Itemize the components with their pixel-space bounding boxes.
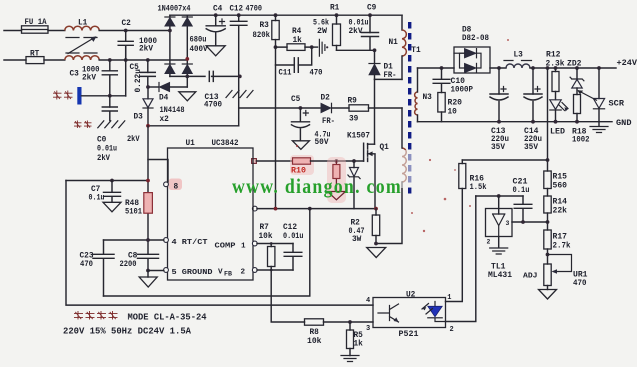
L1 adjust arrow bbox=[68, 36, 97, 53]
artifact specks bbox=[296, 39, 509, 232]
label R14 bbox=[553, 199, 568, 207]
transformer N1 primary winding bbox=[402, 30, 406, 56]
wire C2 below RT line bbox=[125, 60, 127, 96]
wire AC line N input bbox=[4, 59, 26, 61]
junction C2 bottom bbox=[124, 58, 128, 62]
label R16 value 1.5k bbox=[470, 184, 487, 192]
wire pin6 to R10 bbox=[256, 160, 292, 162]
svg-text:1000P: 1000P bbox=[451, 86, 474, 94]
wire blue bar to C0/C2 net bbox=[82, 95, 126, 97]
svg-text:0.22u: 0.22u bbox=[135, 69, 143, 93]
svg-text:T1: T1 bbox=[411, 47, 421, 55]
label ADJ bbox=[523, 273, 538, 281]
capacitor C12b bbox=[284, 244, 302, 271]
pink halo pin 8 bbox=[169, 179, 183, 191]
wire Vref horizontal bbox=[66, 180, 148, 182]
TL431 internal symbol bbox=[493, 196, 505, 237]
label R2 value 3W bbox=[352, 236, 362, 244]
junction gate zener bbox=[352, 159, 356, 163]
label K1507 bbox=[347, 133, 370, 141]
ground arrow C5b bbox=[292, 141, 309, 150]
label SCR bbox=[609, 101, 625, 109]
label jie-di (red CJK) bbox=[74, 121, 92, 129]
svg-text:C2: C2 bbox=[122, 20, 132, 28]
label R9 bbox=[348, 98, 358, 106]
svg-text:2kV: 2kV bbox=[127, 135, 140, 144]
junction CS drop bbox=[308, 207, 312, 211]
label opto pin 2 bbox=[450, 326, 454, 334]
label C10 value 1000P bbox=[451, 86, 474, 94]
junction C12 rail bbox=[237, 13, 241, 17]
label pin 5 GROUND bbox=[172, 269, 213, 277]
svg-text:22k: 22k bbox=[553, 207, 568, 215]
svg-text:C10: C10 bbox=[451, 78, 466, 86]
bridge right string bbox=[186, 15, 188, 76]
wire D3/R43 vertical bbox=[147, 126, 149, 255]
ground bars R5 bbox=[341, 356, 359, 362]
svg-text:2kV: 2kV bbox=[349, 27, 363, 36]
junction R2 top bbox=[374, 207, 378, 211]
junction VCC on CS wire bbox=[274, 207, 278, 211]
svg-text:680u: 680u bbox=[190, 36, 207, 45]
svg-text:R3: R3 bbox=[260, 22, 270, 30]
capacitor C14 220u bbox=[524, 68, 542, 122]
label C12b value 0.01u bbox=[283, 233, 304, 241]
svg-text:R12: R12 bbox=[546, 52, 561, 60]
label R10 (red) bbox=[291, 167, 306, 175]
U1 pin2 VFB circle bbox=[252, 268, 257, 273]
label R7 value 10k bbox=[259, 233, 273, 241]
label R3 value 820k bbox=[253, 31, 271, 40]
label R2 value 0.47 bbox=[349, 228, 365, 236]
junction R3 bottom bbox=[274, 45, 278, 49]
label C23 value 470 bbox=[80, 261, 93, 269]
svg-text:D82-08: D82-08 bbox=[462, 35, 489, 43]
wire pin5 net bbox=[148, 270, 164, 272]
wire drain vertical bbox=[374, 79, 376, 144]
capacitor C23 bbox=[93, 240, 114, 296]
label VFB 2 bbox=[218, 268, 246, 277]
wire CS net bbox=[257, 208, 376, 210]
label R9 value 39 bbox=[349, 116, 359, 124]
svg-text:0.01u: 0.01u bbox=[349, 18, 369, 27]
pink halo R10 bbox=[290, 155, 314, 175]
label T1 bbox=[411, 47, 421, 55]
ground arrow R2 bbox=[367, 248, 386, 258]
D8 internal top diode bbox=[454, 49, 477, 58]
wire pin4 net bbox=[104, 239, 164, 241]
wire R15-R14 bbox=[547, 189, 549, 197]
svg-text:UC3842: UC3842 bbox=[212, 140, 239, 148]
label opto pin 1 bbox=[447, 294, 451, 302]
svg-text:SCR: SCR bbox=[609, 101, 625, 109]
diode D bridge top-left bbox=[165, 17, 175, 26]
svg-text:R1: R1 bbox=[330, 5, 340, 13]
junction bridge right / N rail bbox=[185, 57, 189, 61]
D8 internal joins bbox=[460, 53, 482, 68]
label U1 bbox=[186, 140, 196, 148]
U1 pin 8 circle bbox=[164, 182, 169, 187]
svg-text:220u: 220u bbox=[524, 136, 542, 144]
label C21 bbox=[513, 179, 528, 187]
svg-text:0.1u: 0.1u bbox=[513, 187, 530, 195]
junction SCR rail bbox=[597, 66, 601, 70]
junction R18 gnd bbox=[575, 120, 579, 124]
svg-text:R5: R5 bbox=[354, 332, 364, 340]
wire N3 to D8 bbox=[418, 67, 455, 69]
svg-text:C13: C13 bbox=[491, 128, 506, 136]
label C10 bbox=[451, 78, 466, 86]
label 2kV (C5x) bbox=[127, 135, 140, 144]
junction C7 bbox=[110, 179, 114, 183]
svg-text:3W: 3W bbox=[352, 236, 362, 244]
wire snubber bottom bbox=[337, 49, 375, 51]
svg-text:C14: C14 bbox=[524, 128, 539, 136]
diode D bridge bottom-right bbox=[182, 64, 192, 74]
label C9 value 2kV bbox=[349, 27, 363, 36]
resistor R4 bbox=[276, 44, 312, 51]
resistor R43 (highlighted) bbox=[144, 193, 153, 214]
U1 pin 5 circle bbox=[164, 268, 169, 273]
label 220V 15% 50Hz DC24V 1.5A bbox=[63, 325, 191, 336]
label C4 value 680u bbox=[190, 36, 207, 45]
label TL431 pin3 bbox=[506, 220, 510, 227]
svg-text:470: 470 bbox=[573, 280, 587, 288]
junction UR1 top bbox=[546, 253, 550, 257]
junction C2 top bbox=[124, 29, 128, 33]
label C12 value 4700 bbox=[246, 6, 263, 14]
svg-text:0.01u: 0.01u bbox=[283, 233, 304, 241]
svg-text:2kV: 2kV bbox=[139, 45, 153, 54]
svg-text:D3: D3 bbox=[134, 114, 144, 122]
thyristor SCR bbox=[577, 68, 604, 122]
wire bridge to D4 net bbox=[186, 76, 188, 87]
svg-text:R17: R17 bbox=[553, 234, 568, 242]
svg-text:V: V bbox=[218, 268, 223, 276]
capacitor C13a 4700 series bbox=[209, 71, 213, 81]
svg-text:5.6k: 5.6k bbox=[313, 18, 329, 27]
label C5x bbox=[130, 64, 140, 72]
label R1 value 2W bbox=[317, 27, 327, 36]
wire to R16 bbox=[462, 159, 547, 161]
GND output rail bbox=[418, 121, 613, 123]
label ML431 bbox=[488, 272, 512, 280]
svg-text:400V: 400V bbox=[190, 45, 208, 54]
junction FB tap rail bbox=[546, 66, 550, 70]
label R15 value 560 bbox=[553, 182, 568, 190]
wire COMP net bbox=[257, 243, 293, 245]
svg-text:1k: 1k bbox=[354, 341, 364, 349]
label GND bbox=[616, 120, 632, 128]
svg-text:470: 470 bbox=[80, 261, 93, 269]
zener ZD1 gate bbox=[348, 161, 360, 209]
label D2 FR- bbox=[322, 118, 335, 126]
svg-text:C7: C7 bbox=[91, 186, 101, 194]
svg-text:U2: U2 bbox=[406, 292, 416, 300]
capacitor C4 680u bbox=[206, 15, 225, 46]
junction C14 top bbox=[531, 66, 535, 70]
label C13 bbox=[491, 128, 506, 136]
bridge left string bbox=[169, 15, 171, 76]
wire N line to bridge bbox=[99, 59, 187, 61]
svg-text:C9: C9 bbox=[367, 5, 377, 13]
junction R12 rail bbox=[554, 66, 558, 70]
wire C12 long vertical bbox=[238, 26, 240, 126]
label P521 bbox=[399, 331, 419, 339]
svg-text:ZD2: ZD2 bbox=[567, 60, 582, 68]
capacitor C21 bbox=[514, 196, 532, 222]
wiper link UR1 bbox=[548, 255, 572, 274]
svg-text:560: 560 bbox=[553, 182, 568, 190]
inductor L3 bbox=[506, 64, 530, 68]
svg-text:K1507: K1507 bbox=[347, 133, 370, 141]
label C3 value 1000 2kV bbox=[82, 66, 100, 83]
diode D1 FR- bbox=[369, 50, 380, 79]
label TL431 pin2 bbox=[487, 239, 491, 246]
svg-text:1N4148: 1N4148 bbox=[160, 107, 185, 115]
label R2 bbox=[351, 220, 361, 228]
svg-text:C23: C23 bbox=[80, 252, 94, 260]
label L1 bbox=[78, 20, 88, 28]
potentiometer UR1 bbox=[544, 264, 551, 286]
junction C9 rail bbox=[368, 13, 372, 17]
label C4 bbox=[213, 6, 223, 14]
junction ZD2 rail bbox=[575, 66, 579, 70]
junction C10 top bbox=[440, 66, 444, 70]
svg-text:2200: 2200 bbox=[120, 261, 137, 269]
opto LED (blue) bbox=[428, 302, 446, 322]
svg-text:FB: FB bbox=[224, 271, 232, 278]
label R8 value 10k bbox=[307, 338, 322, 346]
svg-text:UR1: UR1 bbox=[573, 272, 588, 280]
wire N2 top bbox=[401, 108, 403, 148]
label C0 bbox=[97, 137, 107, 145]
svg-text:R15: R15 bbox=[553, 174, 568, 182]
label R3 bbox=[260, 22, 270, 30]
wire R8 to opto pin3 bbox=[324, 321, 374, 323]
svg-text:4700: 4700 bbox=[204, 101, 222, 110]
junction Vref/R43 bbox=[146, 179, 150, 183]
junction C8 bottom bbox=[146, 269, 150, 273]
svg-text:C0: C0 bbox=[97, 137, 107, 145]
label R18 bbox=[572, 129, 587, 137]
label C11 value 470 bbox=[310, 69, 323, 78]
svg-text:ML431: ML431 bbox=[488, 272, 512, 280]
svg-text:2.7k: 2.7k bbox=[553, 242, 571, 250]
label R12 value 2.3k bbox=[546, 60, 565, 68]
label C13a value 4700 bbox=[204, 101, 222, 110]
label C4 plus bbox=[220, 19, 225, 24]
wire TL431 cathode net bbox=[476, 195, 523, 197]
wire R17-UR1 bbox=[547, 249, 549, 264]
wire VFB to R8 bbox=[271, 270, 304, 322]
transformer core dashes bbox=[408, 22, 411, 196]
label C5b bbox=[291, 96, 301, 104]
svg-text:Q1: Q1 bbox=[380, 144, 390, 152]
diode D bridge bottom-left bbox=[165, 64, 175, 74]
opto light arrows bbox=[422, 304, 433, 315]
label kai-liang (red CJK) bbox=[53, 91, 73, 100]
label opto pin 3 bbox=[366, 325, 370, 333]
svg-text:P521: P521 bbox=[399, 331, 419, 339]
junction C14 gnd bbox=[531, 120, 535, 124]
label C8 bbox=[128, 252, 138, 260]
capacitor C5 X-cap bbox=[140, 60, 155, 87]
svg-text:R7: R7 bbox=[260, 224, 270, 232]
label opto pin 4 bbox=[366, 297, 370, 305]
C13 plus bbox=[501, 87, 506, 92]
svg-text:N3: N3 bbox=[423, 94, 433, 102]
svg-text:R4: R4 bbox=[292, 28, 302, 36]
resistor R1 bbox=[333, 15, 341, 50]
wire VFB net bbox=[257, 269, 293, 271]
label R8 bbox=[310, 329, 320, 337]
capacitor C8 bbox=[138, 254, 159, 270]
diode D4 1N4148 bbox=[148, 83, 187, 92]
junction C21 bottom bbox=[521, 220, 525, 224]
label C7 bbox=[91, 186, 101, 194]
svg-text:8: 8 bbox=[174, 183, 179, 191]
svg-text:COMP: COMP bbox=[215, 242, 237, 250]
svg-text:220u: 220u bbox=[491, 136, 509, 144]
svg-text:C4: C4 bbox=[213, 6, 223, 14]
svg-text:ADJ: ADJ bbox=[523, 273, 538, 281]
junction C3 top bbox=[108, 58, 112, 62]
label C3 bbox=[70, 71, 80, 79]
label C5b plus bbox=[303, 111, 308, 116]
label C13a bbox=[205, 94, 219, 102]
capacitor C3 bbox=[102, 60, 117, 96]
label model CJK (red) bbox=[74, 311, 118, 320]
svg-text:5101: 5101 bbox=[125, 208, 142, 216]
svg-text:D2: D2 bbox=[321, 94, 331, 102]
label C5x value 0.22u bbox=[135, 69, 143, 93]
label C11 bbox=[279, 70, 292, 78]
mosfet Q1 K1507 bbox=[364, 143, 375, 208]
ground arrow C8 bbox=[139, 271, 157, 288]
ground arrow R11 (red) bbox=[328, 192, 346, 200]
watermark www.diangon.com bbox=[232, 174, 402, 198]
svg-text:C11: C11 bbox=[279, 70, 292, 78]
junction R16 tee bbox=[546, 158, 550, 162]
svg-text:C12: C12 bbox=[230, 6, 244, 14]
label LED bbox=[550, 129, 565, 137]
capacitor C0 bbox=[102, 96, 117, 121]
label COMP 1 bbox=[215, 242, 247, 250]
svg-text:U1: U1 bbox=[186, 140, 196, 148]
svg-text:1.5k: 1.5k bbox=[470, 184, 487, 192]
capacitor C11 loop bbox=[276, 47, 312, 72]
resistor R12 bbox=[552, 68, 559, 100]
resistor R8 bbox=[305, 319, 324, 325]
wire rail to N1 bbox=[401, 15, 403, 30]
junction C4 rail bbox=[214, 13, 218, 17]
label C13 value 220u bbox=[491, 136, 509, 144]
wire AC line L input bbox=[4, 30, 22, 32]
junction R1 rail bbox=[335, 13, 339, 17]
svg-text:R2: R2 bbox=[351, 220, 361, 228]
label R5 bbox=[354, 332, 364, 340]
label TL1 bbox=[491, 263, 506, 271]
label FU 1A bbox=[25, 19, 47, 27]
label C9 bbox=[367, 5, 377, 13]
svg-text:10k: 10k bbox=[307, 338, 322, 346]
ground arrow UR1 bbox=[539, 286, 557, 300]
svg-text:R16: R16 bbox=[470, 176, 485, 184]
label UC3842 bbox=[212, 140, 239, 148]
junction C0 top bbox=[108, 94, 112, 98]
capacitor C9 bbox=[362, 15, 379, 50]
junction D3 bottom bbox=[146, 124, 150, 128]
wire N1 bottom to drain bbox=[375, 78, 403, 80]
resistor R18 bbox=[574, 95, 581, 122]
wire VCC aux net bbox=[300, 107, 402, 109]
svg-text:x2: x2 bbox=[160, 116, 170, 124]
junction C5b bbox=[299, 106, 303, 110]
label C0 value 2kV bbox=[97, 154, 110, 163]
wire CS to C23 loop bbox=[104, 209, 310, 296]
svg-text:GND: GND bbox=[616, 120, 632, 128]
label R43 bbox=[125, 200, 139, 208]
label R20 bbox=[448, 100, 463, 108]
junction C5x top bbox=[146, 58, 150, 62]
label C2 value 1000 2kV bbox=[139, 37, 157, 54]
label C14 bbox=[524, 128, 539, 136]
label C0 value 0.01u bbox=[97, 145, 117, 154]
resistor R14 bbox=[544, 196, 551, 213]
junction R2 bottom bbox=[374, 242, 378, 246]
svg-text:R9: R9 bbox=[348, 98, 358, 106]
label C9 value 0.01u bbox=[349, 18, 369, 27]
inductor L1 bottom winding bbox=[65, 56, 99, 60]
label D1 bbox=[384, 64, 394, 72]
label C12b bbox=[283, 224, 297, 232]
label C12 top bbox=[230, 6, 244, 14]
zener ZD2 bbox=[570, 68, 584, 95]
label C13 value 35V bbox=[491, 144, 505, 152]
wire R10 to gate bbox=[311, 160, 364, 162]
capacitor C13 220u bbox=[490, 68, 508, 122]
svg-text:220V 15% 50Hz DC24V 1.5A: 220V 15% 50Hz DC24V 1.5A bbox=[63, 325, 191, 336]
resistor R10 (highlighted) bbox=[293, 158, 311, 164]
svg-text:1k: 1k bbox=[293, 37, 303, 45]
label R4 bbox=[292, 28, 302, 36]
svg-text:1N4007x4: 1N4007x4 bbox=[158, 6, 191, 14]
opto transistor bbox=[378, 304, 399, 322]
resistor R5 bbox=[347, 322, 354, 356]
label R12 bbox=[546, 52, 561, 60]
label C7 value 0.1u bbox=[89, 194, 105, 202]
svg-text:2kV: 2kV bbox=[97, 154, 110, 163]
resistor R2 bbox=[372, 209, 379, 244]
C14 plus bbox=[535, 87, 540, 92]
label +24V bbox=[617, 60, 637, 68]
label N3 bbox=[423, 94, 433, 102]
svg-text:C21: C21 bbox=[513, 179, 528, 187]
label D3 bbox=[134, 114, 144, 122]
resistor R3 bbox=[272, 15, 279, 47]
wire N3 bottom bbox=[417, 115, 419, 122]
diode D bridge top-right bbox=[182, 17, 192, 26]
wire FB tap down bbox=[547, 68, 549, 171]
svg-text:820k: 820k bbox=[253, 31, 271, 40]
label C4 value 400V bbox=[190, 45, 208, 54]
svg-text:FU 1A: FU 1A bbox=[25, 19, 47, 27]
svg-text:R14: R14 bbox=[553, 199, 568, 207]
svg-text:1002: 1002 bbox=[572, 137, 590, 145]
transformer N2 aux winding bbox=[402, 148, 406, 182]
svg-text:D4: D4 bbox=[159, 94, 169, 102]
